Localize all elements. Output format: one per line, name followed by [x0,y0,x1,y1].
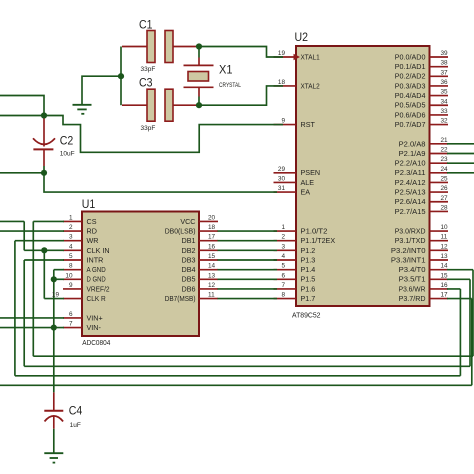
svg-text:A GND: A GND [87,265,106,274]
svg-text:P0.4/AD4: P0.4/AD4 [395,91,426,100]
svg-text:P2.0/A8: P2.0/A8 [399,139,426,148]
svg-text:ADC0804: ADC0804 [82,340,110,347]
svg-text:P2.2/A10: P2.2/A10 [395,159,426,168]
svg-text:P2.1/A9: P2.1/A9 [399,149,426,158]
svg-text:P1.0/T2: P1.0/T2 [301,226,328,235]
svg-text:15: 15 [208,253,216,260]
svg-text:XTAL2: XTAL2 [301,81,320,90]
svg-text:P3.7/RD: P3.7/RD [399,294,426,303]
svg-text:C2: C2 [60,134,74,148]
svg-text:1uF: 1uF [70,422,81,429]
svg-text:INTR: INTR [87,255,104,264]
svg-text:P1.7: P1.7 [301,294,316,303]
svg-text:D GND: D GND [87,275,106,284]
svg-text:P0.6/AD6: P0.6/AD6 [395,110,426,119]
svg-text:CRYSTAL: CRYSTAL [219,82,241,89]
svg-text:P0.1/AD1: P0.1/AD1 [395,62,426,71]
svg-text:XTAL1: XTAL1 [301,52,320,61]
svg-text:11: 11 [441,234,448,241]
svg-text:12: 12 [208,282,216,289]
svg-text:WR: WR [87,236,99,245]
svg-text:DB5: DB5 [182,275,196,284]
svg-text:32: 32 [441,118,449,125]
svg-text:5: 5 [69,253,73,260]
svg-text:39: 39 [441,50,449,57]
svg-text:16: 16 [441,282,449,289]
svg-text:33pF: 33pF [141,66,156,73]
svg-text:10: 10 [441,224,449,231]
svg-text:21: 21 [441,137,449,144]
svg-text:P1.4: P1.4 [301,265,316,274]
svg-text:C1: C1 [139,17,153,31]
svg-text:P1.6: P1.6 [301,284,316,293]
svg-text:2: 2 [281,234,285,241]
svg-text:2: 2 [69,224,73,231]
svg-text:37: 37 [441,69,449,76]
svg-text:38: 38 [441,60,449,67]
svg-text:34: 34 [441,98,449,105]
svg-text:6: 6 [69,311,73,318]
svg-text:AT89C52: AT89C52 [292,313,321,320]
svg-text:8: 8 [69,263,73,270]
svg-text:CS: CS [87,217,97,226]
svg-text:P3.6/WR: P3.6/WR [399,284,426,293]
svg-text:1: 1 [281,224,285,231]
svg-text:U2: U2 [295,30,309,44]
svg-text:P0.5/AD5: P0.5/AD5 [395,101,426,110]
svg-text:PSEN: PSEN [301,168,321,177]
svg-text:X1: X1 [219,63,233,77]
svg-text:VCC: VCC [180,217,195,226]
svg-text:P1.2: P1.2 [301,246,316,255]
svg-text:RD: RD [87,226,97,235]
svg-text:13: 13 [208,272,216,279]
svg-text:U1: U1 [82,197,96,211]
svg-text:P0.3/AD3: P0.3/AD3 [395,81,426,90]
svg-text:17: 17 [441,292,449,299]
svg-text:22: 22 [441,147,449,154]
svg-text:28: 28 [441,204,449,211]
svg-text:ALE: ALE [301,178,315,187]
svg-text:17: 17 [208,234,216,241]
svg-text:7: 7 [281,282,285,289]
svg-text:P2.6/A14: P2.6/A14 [395,197,426,206]
svg-text:25: 25 [441,175,449,182]
svg-text:P2.3/A11: P2.3/A11 [395,168,426,177]
svg-text:DB2: DB2 [182,246,196,255]
svg-text:31: 31 [278,185,286,192]
svg-text:3: 3 [69,234,73,241]
svg-text:DB1: DB1 [182,236,196,245]
svg-text:DB0(LSB): DB0(LSB) [165,226,196,235]
svg-text:10uF: 10uF [60,151,75,158]
svg-text:4: 4 [281,253,285,260]
svg-text:12: 12 [441,243,449,250]
svg-text:P0.2/AD2: P0.2/AD2 [395,72,426,81]
svg-text:29: 29 [278,166,286,173]
svg-text:P3.0/RXD: P3.0/RXD [395,226,426,235]
svg-text:P2.4/A12: P2.4/A12 [395,178,426,187]
svg-text:33: 33 [441,108,449,115]
svg-text:P1.3: P1.3 [301,255,316,264]
svg-text:18: 18 [208,224,216,231]
svg-text:P3.4/T0: P3.4/T0 [399,265,426,274]
svg-text:DB4: DB4 [182,265,196,274]
svg-text:DB6: DB6 [182,284,196,293]
svg-text:6: 6 [281,272,285,279]
svg-text:CLK IN: CLK IN [87,246,110,255]
svg-text:P1.5: P1.5 [301,275,316,284]
svg-text:24: 24 [441,166,449,173]
svg-text:36: 36 [441,79,449,86]
svg-text:P2.5/A13: P2.5/A13 [395,188,426,197]
svg-text:30: 30 [278,175,286,182]
svg-text:P0.7/AD7: P0.7/AD7 [395,120,426,129]
svg-text:20: 20 [208,214,216,221]
svg-text:9: 9 [69,282,73,289]
svg-text:VIN+: VIN+ [87,313,103,322]
svg-text:19: 19 [52,292,60,299]
svg-text:35: 35 [441,89,449,96]
svg-text:1: 1 [69,214,73,221]
svg-text:13: 13 [441,253,449,260]
svg-text:14: 14 [208,263,216,270]
svg-text:P3.2/INT0: P3.2/INT0 [391,246,426,255]
svg-text:C3: C3 [139,75,153,89]
svg-text:14: 14 [441,263,449,270]
svg-text:26: 26 [441,185,449,192]
svg-text:DB7(MSB): DB7(MSB) [165,294,196,303]
svg-text:23: 23 [441,156,449,163]
svg-text:19: 19 [278,50,286,57]
svg-text:18: 18 [278,79,286,86]
svg-text:VREF/2: VREF/2 [87,284,110,293]
svg-text:C4: C4 [69,404,83,418]
svg-text:CLK R: CLK R [87,294,106,303]
svg-text:5: 5 [281,263,285,270]
svg-text:P2.7/A15: P2.7/A15 [395,207,426,216]
svg-text:8: 8 [281,292,285,299]
svg-text:33pF: 33pF [141,125,156,132]
svg-text:4: 4 [69,243,73,250]
svg-text:15: 15 [441,272,449,279]
svg-text:P1.1/T2EX: P1.1/T2EX [301,236,336,245]
svg-text:EA: EA [301,188,311,197]
svg-text:16: 16 [208,243,216,250]
svg-text:3: 3 [281,243,285,250]
svg-text:P3.5/T1: P3.5/T1 [399,275,426,284]
svg-text:DB3: DB3 [182,255,196,264]
svg-text:9: 9 [281,118,285,125]
svg-text:P3.1/TXD: P3.1/TXD [395,236,426,245]
svg-text:P0.0/AD0: P0.0/AD0 [395,52,426,61]
svg-text:P3.3/INT1: P3.3/INT1 [391,255,426,264]
svg-text:VIN-: VIN- [87,323,102,332]
svg-text:10: 10 [65,272,73,279]
svg-text:27: 27 [441,195,449,202]
svg-text:11: 11 [208,292,215,299]
svg-text:7: 7 [69,321,73,328]
svg-text:RST: RST [301,120,316,129]
